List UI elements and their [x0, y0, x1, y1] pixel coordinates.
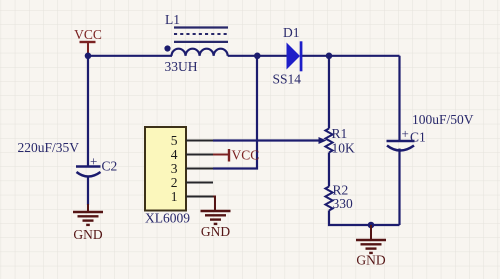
svg-text:GND: GND: [356, 253, 385, 268]
pin 2: [171, 175, 213, 190]
power port VCC top: [74, 27, 102, 55]
svg-text:XL6009: XL6009: [145, 211, 190, 226]
svg-text:10K: 10K: [332, 141, 356, 156]
svg-text:1: 1: [171, 189, 178, 204]
wire VCC node down to C2: [87, 56, 89, 166]
ground below C2: [73, 204, 103, 242]
svg-text:D1: D1: [283, 25, 300, 40]
ground at pin 1: [201, 197, 231, 240]
svg-text:2: 2: [171, 175, 178, 190]
resistor R1 potentiometer: [319, 129, 333, 153]
pin 4: [171, 147, 213, 162]
svg-text:GND: GND: [73, 227, 102, 242]
svg-text:330: 330: [333, 196, 354, 211]
wire node at diode anode down to pin 3: [213, 56, 257, 169]
svg-text:220uF/35V: 220uF/35V: [18, 140, 80, 155]
wire D1 cathode to top-right corner: [302, 55, 400, 57]
capacitor C1: [387, 126, 426, 151]
designator R2: [333, 183, 349, 198]
value label 100uF/50V: [412, 112, 474, 127]
value label 220uF/35V: [18, 140, 80, 155]
svg-text:VCC: VCC: [74, 27, 102, 42]
svg-text:GND: GND: [201, 224, 230, 239]
wire pin 5 to R1 wiper: [213, 139, 320, 141]
value label 330: [333, 196, 354, 211]
value label 10K: [332, 141, 356, 156]
capacitor C2: [76, 154, 117, 177]
svg-text:C2: C2: [102, 159, 118, 174]
wire C2 bottom to GND: [87, 177, 89, 205]
svg-text:4: 4: [171, 147, 178, 162]
svg-text:100uF/50V: 100uF/50V: [412, 112, 474, 127]
svg-text:L1: L1: [165, 12, 180, 27]
node junction at diode anode branch: [254, 53, 261, 60]
resistor R2: [325, 187, 332, 211]
op-amp U1 XL6009 body: [145, 127, 190, 226]
wire C1 bottom to bottom rail: [398, 149, 400, 226]
pin 1: [171, 189, 213, 204]
ground at bottom rail: [356, 225, 386, 268]
svg-text:C1: C1: [410, 130, 426, 145]
node junction at VCC rail: [85, 53, 92, 60]
wire diode cathode node down to R1: [328, 56, 330, 129]
svg-text:R1: R1: [332, 126, 348, 141]
wire VCC rail to L1: [88, 55, 172, 57]
svg-text:3: 3: [171, 161, 178, 176]
power port VCC at pin 4: [213, 148, 259, 163]
value label 33UH: [165, 59, 198, 74]
diode D1: [283, 25, 302, 71]
svg-text:+: +: [90, 154, 97, 169]
svg-text:33UH: 33UH: [165, 59, 198, 74]
node junction at diode cathode: [326, 53, 333, 60]
inductor L1: [164, 12, 228, 56]
wire R2 to bottom rail: [329, 211, 400, 226]
svg-text:VCC: VCC: [232, 148, 260, 163]
value label SS14: [273, 72, 302, 87]
svg-text:+: +: [402, 126, 409, 141]
wire L1 to D1 anode: [228, 55, 287, 57]
wire R1 to R2: [328, 153, 330, 187]
node junction at bottom rail: [368, 222, 375, 229]
wire top-right corner down to C1: [398, 56, 400, 141]
svg-text:SS14: SS14: [273, 72, 302, 87]
pin 5: [171, 133, 213, 148]
designator R1: [332, 126, 348, 141]
svg-text:5: 5: [171, 133, 178, 148]
pin 3: [171, 161, 213, 176]
